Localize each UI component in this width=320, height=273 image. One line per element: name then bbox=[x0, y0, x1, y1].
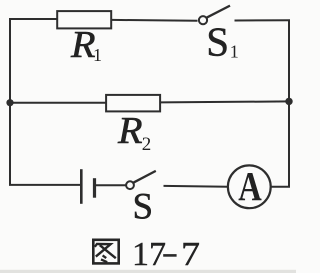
svg-text:1: 1 bbox=[230, 41, 239, 61]
wire top-middle segment bbox=[112, 19, 198, 22]
svg-text:R: R bbox=[70, 24, 96, 66]
svg-text:1: 1 bbox=[93, 45, 102, 65]
hanzi TU (figure) drawn as strokes bbox=[93, 240, 118, 264]
resistor R2 bbox=[106, 95, 160, 112]
svg-text:S: S bbox=[133, 186, 154, 227]
label S bbox=[133, 186, 154, 227]
caption 图 17-7 bbox=[93, 236, 200, 273]
svg-text:R: R bbox=[117, 110, 143, 152]
ammeter U1 bbox=[228, 165, 271, 208]
node right junction bbox=[285, 98, 292, 105]
wire left vertical bbox=[9, 19, 11, 186]
wire bottom-left segment bbox=[9, 184, 80, 186]
switch S1 bbox=[199, 6, 230, 25]
battery short plate bbox=[93, 178, 96, 198]
wire right vertical bbox=[288, 20, 290, 187]
wire switch-to-ammeter segment bbox=[164, 185, 229, 188]
label S1 bbox=[206, 18, 239, 64]
battery long plate bbox=[80, 169, 83, 204]
svg-text:7: 7 bbox=[181, 236, 200, 273]
svg-text:A: A bbox=[238, 163, 262, 209]
wire top-right segment bbox=[235, 19, 291, 21]
wire middle-right segment bbox=[161, 101, 290, 102]
label R1 bbox=[70, 24, 102, 66]
svg-text:17: 17 bbox=[132, 236, 166, 273]
node left junction bbox=[6, 99, 13, 106]
svg-text:2: 2 bbox=[142, 134, 152, 155]
switch S bbox=[126, 171, 156, 189]
wire top-left segment bbox=[9, 18, 57, 20]
wire bottom-right segment bbox=[271, 186, 290, 188]
svg-text:S: S bbox=[206, 18, 229, 64]
resistor R1 bbox=[57, 11, 111, 28]
wire battery-to-switch segment bbox=[96, 184, 126, 186]
label R2 bbox=[117, 110, 151, 155]
wire middle-left segment bbox=[9, 102, 106, 104]
